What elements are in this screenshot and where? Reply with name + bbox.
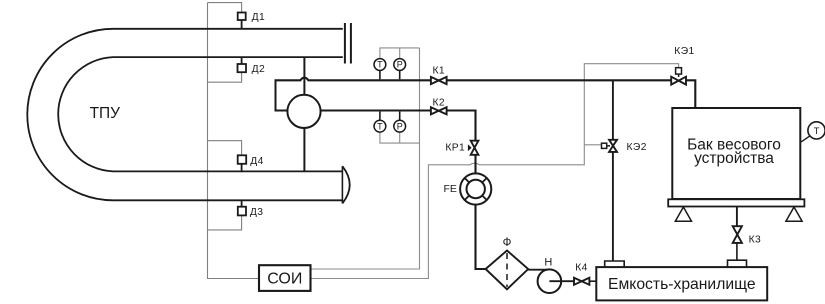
- pipe К3 to storage tank nozzle: [736, 243, 738, 260]
- storage tank right nozzle: [728, 260, 747, 267]
- pipe from 4-way valve down to bottom ТПУ pipe: [303, 128, 305, 172]
- svg-text:СОИ: СОИ: [267, 271, 302, 288]
- support triangle left: [675, 207, 691, 221]
- svg-text:Н: Н: [544, 257, 552, 269]
- wire instrument bus to СОИ: [311, 48, 420, 269]
- valve К4: [574, 278, 589, 285]
- pipe ТПУ loop inner wall: [58, 57, 343, 171]
- svg-text:FE: FE: [444, 183, 457, 195]
- support triangle right: [786, 207, 802, 221]
- valve КР1 with actuator: [471, 141, 479, 155]
- pipe ТПУ loop outer wall: [27, 29, 343, 201]
- instrument Р top: [399, 70, 401, 79]
- valve К2: [431, 107, 447, 114]
- svg-text:Д2: Д2: [252, 64, 266, 75]
- valve К3: [733, 226, 742, 243]
- svg-text:Емкость-хранилище: Емкость-хранилище: [608, 276, 756, 293]
- svg-text:К3: К3: [749, 234, 762, 245]
- weighing platform plate: [668, 199, 804, 206]
- valve КЭ2 with actuator: [609, 140, 617, 152]
- pipe branch through КЭ2 to storage tank nozzle: [612, 80, 614, 140]
- svg-text:КЭ1: КЭ1: [674, 46, 694, 57]
- svg-text:Д1: Д1: [252, 12, 266, 23]
- pipe weighing tank drain to К3: [736, 207, 738, 227]
- svg-text:К4: К4: [575, 262, 588, 273]
- pipe K2 line from 4-way valve to КР1: [275, 111, 476, 141]
- pipe U-turn connector at left of K1/K2 lines: [275, 80, 277, 110]
- svg-text:Т: Т: [377, 121, 383, 131]
- detector Д3: [241, 200, 243, 207]
- detector Д2: [241, 57, 243, 65]
- valve КЭ1 with actuator: [671, 77, 686, 85]
- svg-text:Р: Р: [397, 121, 403, 131]
- dished cap at bottom pipe end: [342, 166, 349, 203]
- wire sensor bus to СОИ: [208, 3, 260, 279]
- svg-text:ТПУ: ТПУ: [90, 105, 121, 122]
- svg-text:КЭ2: КЭ2: [627, 142, 647, 153]
- pipe K1 line with hop over sensor line: [275, 78, 672, 81]
- signal processing unit СОИ: [259, 265, 311, 291]
- storage tank left nozzle: [605, 261, 625, 267]
- pipe from top ТПУ pipe down to 4-way valve: [303, 57, 305, 95]
- pipe К4 to storage tank: [589, 280, 596, 282]
- svg-text:КР1: КР1: [445, 142, 465, 153]
- weighing tank Бак весового устройства: [672, 108, 800, 199]
- filter Ф: [486, 251, 529, 290]
- valve К1: [431, 77, 447, 84]
- instrument Т on weighing tank: [801, 135, 811, 142]
- instrument Р bottom: [399, 112, 401, 121]
- storage tank Емкость-хранилище: [596, 267, 767, 300]
- instrument Т bottom: [379, 112, 381, 121]
- flange at top pipe end: [345, 23, 351, 64]
- instrument Т top: [379, 70, 381, 79]
- svg-text:Р: Р: [397, 60, 403, 70]
- svg-text:Д4: Д4: [250, 156, 264, 167]
- flowmeter FE: [474, 155, 476, 173]
- pipe filter to pump: [528, 269, 549, 271]
- detector Д1: [241, 20, 243, 30]
- svg-text:Ф: Ф: [503, 237, 512, 249]
- svg-text:Т: Т: [814, 126, 820, 137]
- detector Д4: [241, 164, 243, 172]
- pipe КЭ1 to weighing tank: [686, 80, 695, 108]
- 4-way valve circle: [287, 95, 320, 128]
- pump Н: [538, 269, 562, 293]
- svg-text:устройства: устройства: [694, 150, 774, 167]
- wire control line СОИ to КЭ1 and КЭ2 actuators: [311, 64, 679, 279]
- svg-text:Т: Т: [377, 60, 383, 70]
- svg-text:К2: К2: [433, 98, 446, 109]
- svg-text:К1: К1: [433, 66, 446, 77]
- svg-text:Д3: Д3: [250, 207, 264, 218]
